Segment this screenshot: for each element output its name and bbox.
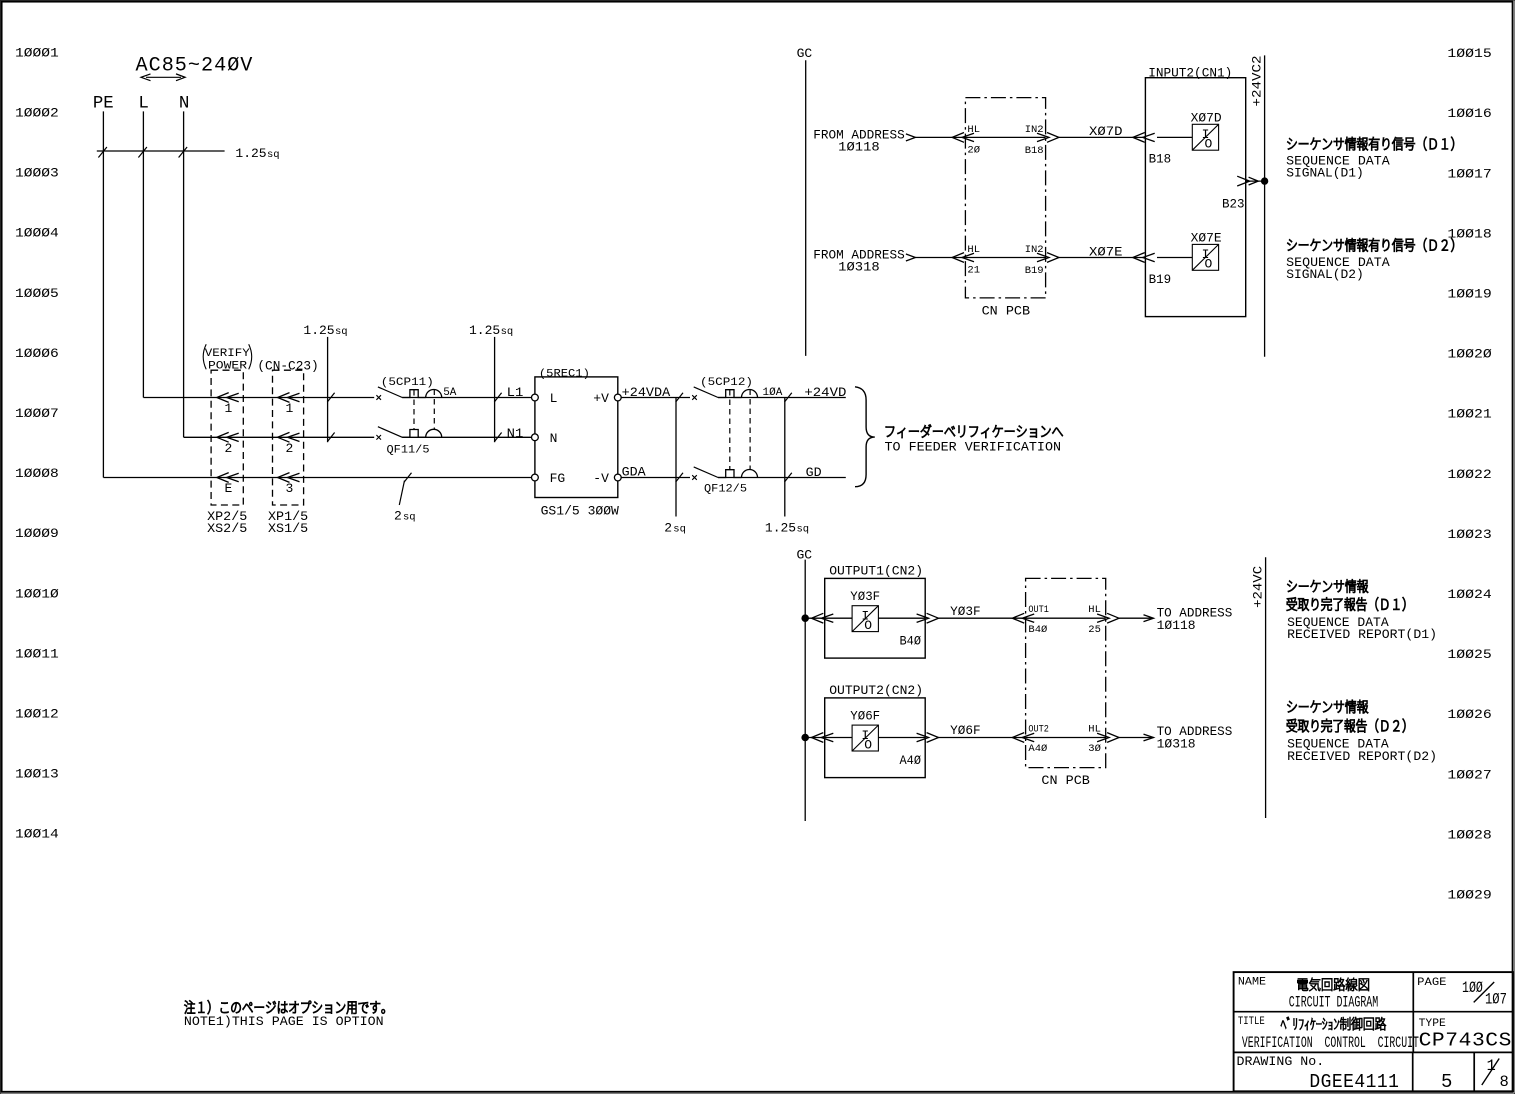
svg-text:B19: B19 [1149, 272, 1172, 287]
output point Y03F [802, 589, 939, 648]
svg-text:21: 21 [967, 265, 980, 277]
module OUTPUT2(CN2) [825, 683, 926, 778]
svg-text:(5CP12): (5CP12) [700, 377, 753, 389]
svg-text:1Ø318: 1Ø318 [1157, 737, 1196, 752]
svg-text:1: 1 [225, 401, 233, 416]
svg-text:L: L [550, 391, 558, 406]
svg-text:1.25: 1.25 [235, 146, 266, 161]
svg-text:HL: HL [967, 244, 980, 256]
input point X07E [1133, 231, 1222, 287]
gauge 1.25sq leader (output) [765, 393, 809, 536]
brace to feeder verification [855, 387, 875, 487]
module OUTPUT1(CN2) [825, 563, 926, 658]
svg-text:OUT1: OUT1 [1028, 604, 1049, 616]
svg-text:XØ7E: XØ7E [1089, 244, 1123, 259]
svg-text:VERIFY: VERIFY [205, 348, 250, 360]
svg-text:YØ3F: YØ3F [850, 589, 880, 604]
svg-text:CP743CS: CP743CS [1419, 1029, 1512, 1051]
svg-text:VERIFICATION CONTROL CIRCUIT: VERIFICATION CONTROL CIRCUIT [1242, 1034, 1419, 1052]
svg-text:(CN-C23): (CN-C23) [257, 359, 318, 374]
net L [138, 94, 149, 398]
connector XP2/5 XS2/5 [207, 370, 247, 536]
svg-text:1ØØ1Ø: 1ØØ1Ø [15, 586, 59, 601]
svg-text:HL: HL [1088, 724, 1101, 736]
label (VERIFY POWER) [203, 344, 252, 372]
svg-text:1ØØ14: 1ØØ14 [15, 827, 59, 842]
label sequence data signal (D1) [1286, 137, 1454, 181]
wire to address 10118 [1118, 605, 1232, 633]
title block sheet 1/8 [1482, 1057, 1509, 1091]
title block TYPE cell [1419, 1018, 1512, 1052]
svg-text:1ØØ26: 1ØØ26 [1447, 707, 1491, 722]
title block DRAWING cell [1237, 1054, 1400, 1093]
power supply 5REC1 GS1/5 300W [532, 369, 622, 519]
wire from 10318 [906, 254, 966, 261]
svg-text:1ØØØ6: 1ØØØ6 [15, 346, 59, 361]
svg-text:1ØØ18: 1ØØ18 [1447, 226, 1491, 241]
connector CN PCB (output) [1012, 578, 1119, 788]
connector CN PCB (input) [952, 98, 1059, 319]
svg-text:DGEE4111: DGEE4111 [1309, 1071, 1399, 1093]
svg-text:PAGE: PAGE [1417, 977, 1447, 989]
svg-text:1ØØ12: 1ØØ12 [15, 707, 59, 722]
wire B23 to +24VC2 [1222, 176, 1268, 211]
svg-text:+24VDA: +24VDA [622, 385, 671, 400]
svg-text:O: O [1205, 257, 1213, 272]
svg-text:NAME: NAME [1238, 977, 1267, 989]
svg-text:1ØØ11: 1ØØ11 [15, 646, 59, 661]
wire Y06F [938, 723, 1026, 738]
connector XP1/5 XS1/5 [268, 370, 308, 536]
wire from 10118 [906, 134, 966, 141]
svg-text:1ØØØ8: 1ØØØ8 [15, 466, 59, 481]
svg-text:O: O [864, 618, 872, 633]
svg-text:1.25: 1.25 [303, 323, 334, 338]
wire to address 10318 [1118, 724, 1232, 752]
svg-text:1.25: 1.25 [765, 520, 796, 535]
svg-text:5: 5 [1441, 1071, 1453, 1093]
svg-text:E: E [225, 481, 233, 496]
svg-text:-V: -V [593, 471, 609, 486]
svg-text:B19: B19 [1025, 265, 1044, 277]
svg-text:1ØØØ1: 1ØØØ1 [15, 45, 59, 60]
svg-text:1ØØ29: 1ØØ29 [1447, 888, 1491, 903]
svg-text:O: O [1205, 137, 1213, 152]
svg-text:FG: FG [550, 471, 566, 486]
svg-text:O: O [864, 737, 872, 752]
svg-text:1ØA: 1ØA [763, 387, 783, 399]
svg-text:1ØØØ4: 1ØØØ4 [15, 226, 59, 241]
svg-text:N: N [179, 94, 190, 114]
svg-text:N1: N1 [507, 426, 524, 441]
svg-text:1ØØØ2: 1ØØØ2 [15, 106, 59, 121]
title block [1234, 972, 1513, 1091]
svg-text:TITLE: TITLE [1238, 1016, 1265, 1028]
svg-text:1ØØ15: 1ØØ15 [1447, 46, 1491, 61]
svg-text:B23: B23 [1222, 197, 1245, 212]
svg-text:1ØØØ9: 1ØØØ9 [15, 526, 59, 541]
net N [179, 94, 190, 438]
net GC (bottom) [797, 547, 813, 821]
gauge 1.25sq leader (left of breaker) [303, 323, 347, 442]
svg-text:B18: B18 [1149, 152, 1172, 167]
svg-text:+24VC2: +24VC2 [1250, 56, 1265, 107]
svg-text:DRAWING No.: DRAWING No. [1237, 1054, 1325, 1069]
svg-text:1ØØ: 1ØØ [1462, 979, 1483, 997]
note: this page is option [184, 1000, 385, 1029]
svg-text:GC: GC [797, 46, 813, 61]
svg-text:RECEIVED REPORT(D1): RECEIVED REPORT(D1) [1287, 627, 1437, 642]
svg-text:XØ7D: XØ7D [1191, 111, 1222, 126]
svg-text:CN PCB: CN PCB [1041, 773, 1090, 788]
right rung numbers 10015-10029 [1447, 46, 1492, 902]
svg-text:1Ø118: 1Ø118 [1157, 618, 1196, 633]
svg-text:HL: HL [1088, 604, 1101, 616]
svg-text:NOTE1)THIS PAGE IS OPTION: NOTE1)THIS PAGE IS OPTION [184, 1014, 384, 1029]
svg-text:L: L [138, 94, 149, 114]
gauge 1.25sq leader (right of breaker) [469, 323, 513, 442]
svg-text:IN2: IN2 [1025, 244, 1044, 256]
label FROM ADDRESS 10118 [813, 128, 905, 155]
svg-text:XS2/5: XS2/5 [207, 521, 247, 536]
svg-text:TO FEEDER VERIFICATION: TO FEEDER VERIFICATION [885, 440, 1062, 455]
svg-text:1ØØ13: 1ØØ13 [15, 767, 59, 782]
wire gauge 1.25sq marker (top) [97, 146, 280, 161]
svg-text:PE: PE [93, 94, 114, 114]
svg-text:OUT2: OUT2 [1028, 724, 1049, 736]
svg-text:1.25: 1.25 [469, 323, 500, 338]
svg-text:GC: GC [797, 547, 813, 562]
label FROM ADDRESS 10318 [813, 248, 905, 275]
svg-text:1Ø7: 1Ø7 [1485, 991, 1507, 1009]
svg-text:XØ7D: XØ7D [1089, 124, 1123, 139]
svg-text:1ØØ28: 1ØØ28 [1447, 827, 1491, 842]
svg-text:QF12/5: QF12/5 [704, 484, 747, 496]
svg-text:(5REC1): (5REC1) [539, 369, 590, 381]
svg-text:3: 3 [286, 481, 294, 496]
svg-text:N: N [550, 431, 558, 446]
svg-text:1Ø318: 1Ø318 [838, 260, 880, 275]
svg-text:sq: sq [797, 523, 810, 535]
module INPUT2(CN1) [1145, 66, 1245, 317]
svg-text:+V: +V [593, 391, 609, 406]
svg-text:SIGNAL(D2): SIGNAL(D2) [1286, 267, 1364, 282]
svg-text:(5CP11): (5CP11) [381, 377, 434, 389]
svg-text:sq: sq [267, 149, 280, 161]
svg-text:sq: sq [673, 523, 686, 535]
svg-text:1ØØ22: 1ØØ22 [1447, 467, 1491, 482]
svg-text:XØ7E: XØ7E [1191, 231, 1222, 246]
label sequence data received report (D2) [1287, 700, 1437, 764]
net +24VC [1251, 557, 1266, 818]
label TO FEEDER VERIFICATION [885, 425, 1063, 455]
svg-text:1ØØ27: 1ØØ27 [1447, 767, 1491, 782]
svg-text:GD: GD [806, 465, 822, 480]
wire X07D [1058, 124, 1146, 139]
net +24VC2 [1250, 55, 1265, 356]
svg-text:YØ6F: YØ6F [950, 723, 981, 738]
net PE [93, 94, 114, 478]
wire L phase (to power supply) [143, 397, 374, 399]
title block TITLE cell [1238, 1016, 1419, 1052]
svg-text:1Ø118: 1Ø118 [838, 140, 880, 155]
svg-text:HL: HL [967, 124, 980, 136]
svg-text:XS1/5: XS1/5 [268, 521, 308, 536]
svg-text:2: 2 [664, 520, 672, 535]
svg-text:RECEIVED REPORT(D2): RECEIVED REPORT(D2) [1287, 749, 1437, 764]
title block PAGE cell [1417, 977, 1507, 1008]
gauge 2sq leader (FG wire) [394, 473, 416, 524]
svg-text:2: 2 [394, 509, 402, 524]
svg-text:2: 2 [225, 441, 233, 456]
net GC (top) [797, 46, 813, 356]
svg-text:1ØØ17: 1ØØ17 [1447, 166, 1491, 181]
svg-text:AC85~24ØV: AC85~24ØV [136, 55, 254, 78]
svg-text:OUTPUT2(CN2): OUTPUT2(CN2) [829, 683, 923, 698]
svg-text:2Ø: 2Ø [967, 144, 980, 156]
svg-text:25: 25 [1088, 624, 1101, 636]
svg-text:QF11/5: QF11/5 [387, 444, 430, 456]
svg-text:B18: B18 [1025, 145, 1044, 157]
gauge 2sq leader (output) [664, 393, 686, 536]
svg-text:sq: sq [501, 326, 514, 338]
label sequence data received report (D1) [1287, 579, 1437, 642]
svg-text:+24VC: +24VC [1251, 566, 1266, 608]
svg-text:B4Ø: B4Ø [1028, 624, 1047, 636]
svg-text:CIRCUIT DIAGRAM: CIRCUIT DIAGRAM [1289, 993, 1378, 1011]
svg-text:TYPE: TYPE [1419, 1018, 1447, 1030]
svg-text:+24VD: +24VD [804, 385, 846, 400]
svg-text:8: 8 [1500, 1073, 1509, 1091]
svg-text:L1: L1 [507, 385, 524, 400]
svg-text:1ØØ19: 1ØØ19 [1447, 287, 1491, 302]
wire N phase [184, 436, 375, 438]
svg-text:1ØØ16: 1ØØ16 [1447, 106, 1491, 121]
svg-text:B4Ø: B4Ø [900, 634, 922, 649]
svg-text:2: 2 [286, 441, 294, 456]
svg-text:A4Ø: A4Ø [900, 753, 922, 768]
svg-text:GDA: GDA [622, 465, 646, 480]
svg-text:1ØØØ3: 1ØØØ3 [15, 166, 59, 181]
svg-text:1ØØØ5: 1ØØØ5 [15, 286, 59, 301]
svg-text:5A: 5A [443, 387, 457, 399]
wire X07E [1058, 244, 1146, 259]
svg-text:1ØØ23: 1ØØ23 [1447, 527, 1491, 542]
wire GDA [621, 465, 846, 480]
circuit breaker QF12/5 (5CP12) [692, 377, 783, 496]
svg-text:3Ø: 3Ø [1088, 743, 1101, 755]
label sequence data signal (D2) [1286, 238, 1454, 282]
svg-text:YØ6F: YØ6F [850, 709, 880, 724]
svg-text:CN PCB: CN PCB [982, 304, 1031, 319]
svg-text:1: 1 [286, 401, 294, 416]
circuit breaker QF11/5 (5CP11) [376, 377, 456, 456]
wire PE/FG [103, 477, 535, 479]
svg-text:SIGNAL(D1): SIGNAL(D1) [1286, 165, 1364, 180]
svg-text:YØ3F: YØ3F [950, 604, 981, 619]
svg-text:OUTPUT1(CN2): OUTPUT1(CN2) [829, 563, 923, 578]
svg-text:1ØØ2Ø: 1ØØ2Ø [1447, 347, 1492, 362]
svg-text:1ØØ21: 1ØØ21 [1447, 407, 1492, 422]
svg-text:sq: sq [403, 512, 416, 524]
wire +24VDA [621, 385, 846, 400]
svg-text:IN2: IN2 [1025, 124, 1044, 136]
wire Y03F [938, 604, 1026, 619]
title block NAME cell [1238, 977, 1378, 1012]
svg-text:1ØØ25: 1ØØ25 [1447, 647, 1491, 662]
output point Y06F [802, 709, 939, 768]
label AC85~240V with span arrow [136, 55, 254, 81]
svg-text:A4Ø: A4Ø [1028, 743, 1047, 755]
svg-text:1ØØØ7: 1ØØØ7 [15, 406, 59, 421]
left rung numbers 10001-10014 [15, 45, 59, 841]
svg-text:1ØØ24: 1ØØ24 [1447, 587, 1492, 602]
input point X07D [1133, 111, 1222, 167]
svg-text:sq: sq [335, 326, 348, 338]
svg-text:GS1/5 3ØØW: GS1/5 3ØØW [541, 504, 619, 519]
